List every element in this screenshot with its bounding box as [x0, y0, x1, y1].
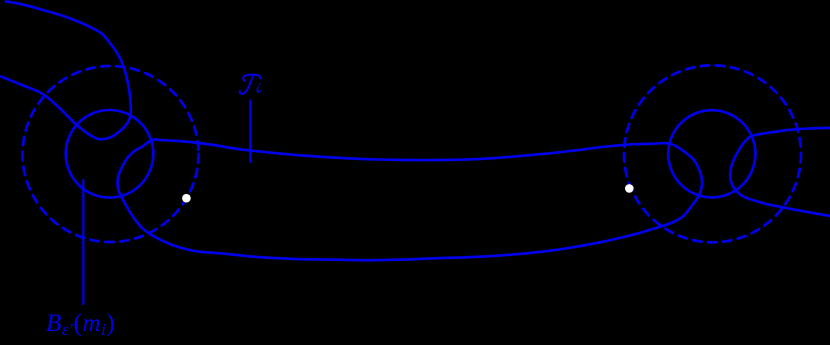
label script T_i [240, 75, 261, 94]
leader line for T_i label [249, 101, 251, 163]
solid circle right [668, 110, 755, 197]
dot of subscript i in T_i label [259, 83, 261, 85]
white dot on left dashed circle [182, 194, 191, 203]
leaf curve through left ball [1, 1, 131, 139]
white dot on right dashed circle [625, 184, 634, 193]
dashed ball boundary left B_eps'(m_i) [23, 66, 199, 242]
leader line for B label [82, 180, 84, 304]
hairpin strand right [730, 128, 830, 216]
dashed ball boundary right [624, 65, 801, 242]
tube curve T_i (closed long loop) [117, 139, 702, 260]
solid circle left (boundary around m_i) [66, 110, 154, 198]
